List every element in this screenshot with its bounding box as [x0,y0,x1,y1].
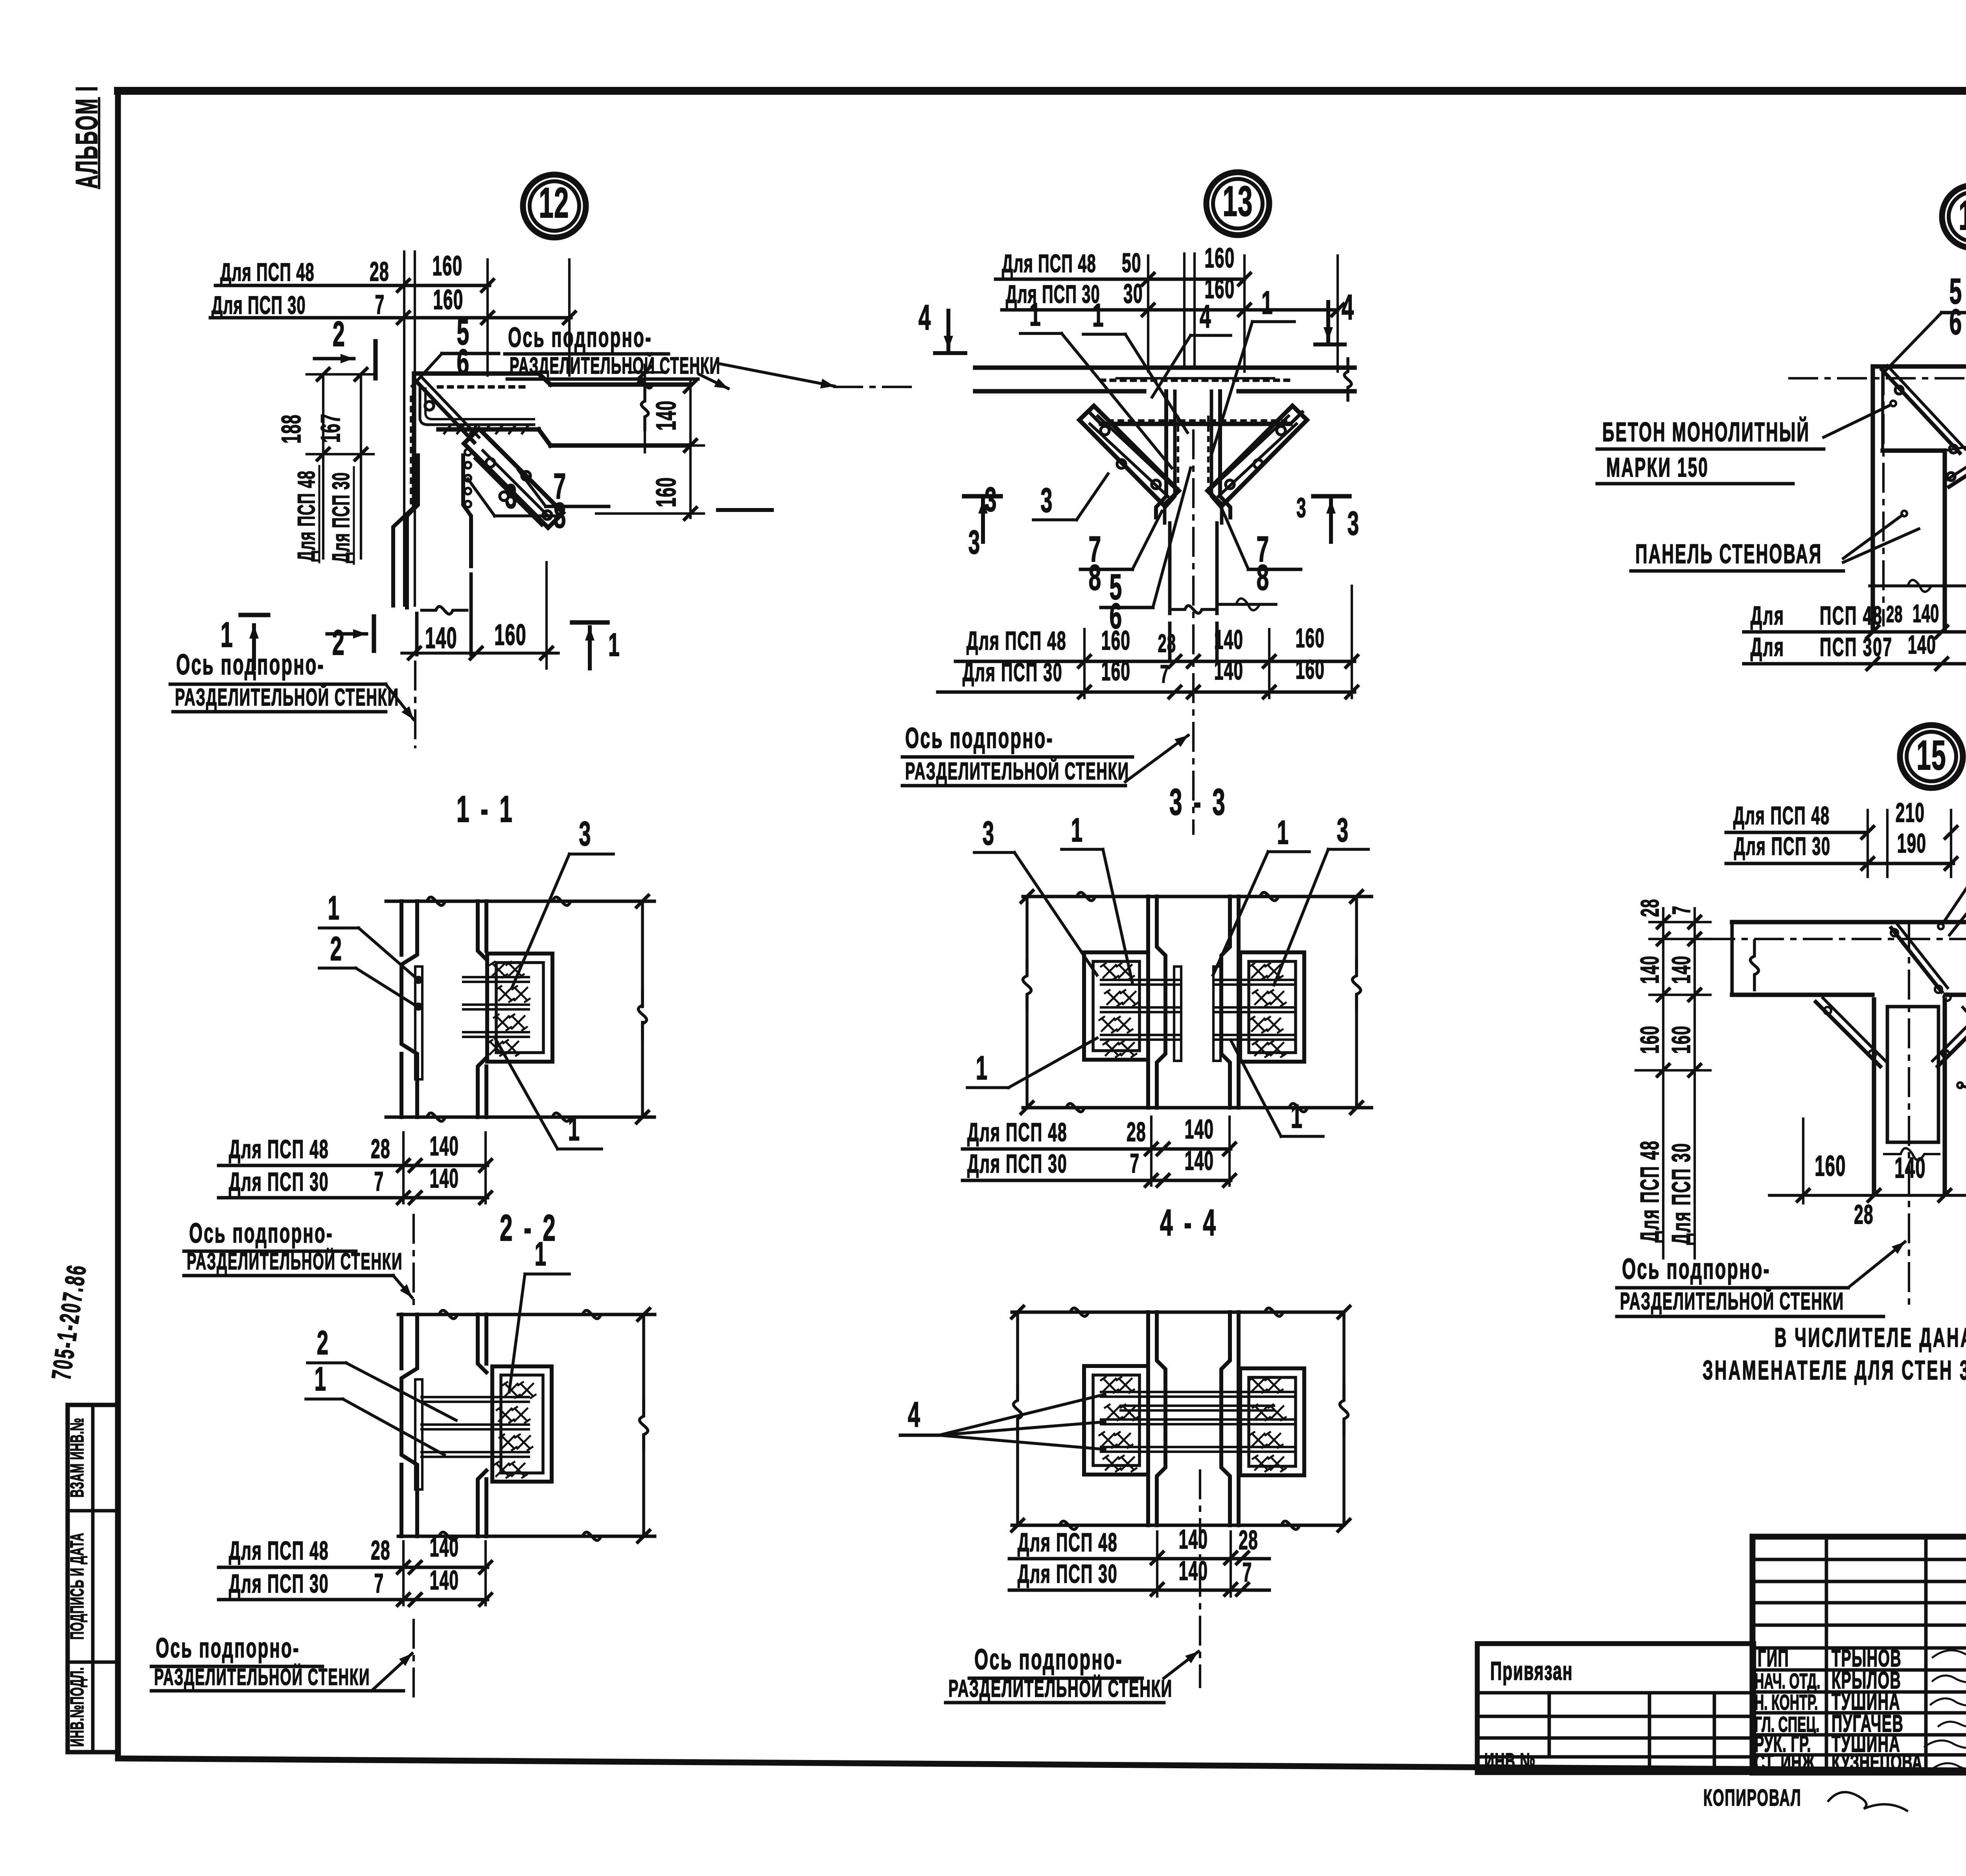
section 2-2 axis label [151,1620,414,1703]
svg-text:28: 28 [371,1535,390,1566]
section 4-4 bottom rail [1012,1521,1341,1529]
node 15 wall panel [1874,1000,1945,1194]
section 3-3 left wall strip [1148,897,1165,1108]
section 4-4 right panel box [1240,1368,1304,1475]
svg-text:Для ПСП 48: Для ПСП 48 [293,470,320,562]
node 12 wall break mark [422,606,467,614]
title block signatures [1925,1650,1966,1775]
svg-text:7: 7 [1160,661,1169,689]
node 14 diagonal strip bottom [1946,439,1966,487]
svg-text:1: 1 [568,1110,580,1147]
svg-text:РАЗДЕЛИТЕЛЬНОЙ СТЕНКИ: РАЗДЕЛИТЕЛЬНОЙ СТЕНКИ [187,1248,403,1275]
svg-text:3: 3 [983,814,995,852]
node 13 right diagonal brace [1208,406,1307,505]
svg-text:РАЗДЕЛИТЕЛЬНОЙ СТЕНКИ: РАЗДЕЛИТЕЛЬНОЙ СТЕНКИ [1620,1287,1844,1315]
svg-text:Ось подпорно-: Ось подпорно- [156,1633,300,1663]
left stamp column boxes [68,1405,118,1752]
node 14 bottom wavy line [1870,580,1966,592]
node 13 section marker 4 right [1315,287,1354,344]
svg-text:140: 140 [1666,955,1696,984]
node 13 wall goblet [1156,391,1230,661]
svg-text:160: 160 [1205,243,1235,273]
svg-text:140: 140 [1913,600,1939,628]
svg-text:Н. КОНТР.: Н. КОНТР. [1754,1690,1818,1714]
section 3-3 rebar anchors left [1099,963,1138,1057]
section 1-1 top rail [386,897,654,905]
title block left extension table [1477,1644,1754,1773]
node 15 label 7 over 8 [1963,1007,1966,1116]
section 2-2 leader 2 left [307,1324,456,1420]
svg-text:Для ПСП 30: Для ПСП 30 [212,292,306,320]
svg-text:РАЗДЕЛИТЕЛЬНОЙ СТЕНКИ: РАЗДЕЛИТЕЛЬНОЙ СТЕНКИ [510,352,720,379]
svg-text:3: 3 [968,523,981,561]
svg-text:Для ПСП 48: Для ПСП 48 [229,1134,329,1164]
node 13 slab break right [1344,359,1351,400]
section 3-3 right panel box [1240,952,1304,1062]
svg-text:30: 30 [1123,279,1143,309]
title block staff labels [1754,1645,1922,1776]
section 2-2 dim rows [219,1532,491,1605]
svg-text:140: 140 [1179,1556,1208,1586]
svg-text:ВЗАМ ИНВ.№: ВЗАМ ИНВ.№ [67,1418,88,1498]
svg-text:ИНВ.№: ИНВ.№ [1484,1748,1536,1773]
section 4-4 right wall strip [1221,1312,1239,1525]
node 12 top dim table row 2 [210,284,571,320]
section 4-4 top rail [1012,1308,1341,1316]
svg-text:140: 140 [1908,630,1936,659]
svg-text:Для ПСП 48: Для ПСП 48 [966,626,1067,655]
svg-text:160: 160 [1635,1025,1664,1054]
title block staff table grid [1752,1537,1966,1773]
svg-text:3 - 3: 3 - 3 [1169,781,1228,823]
node 15 slab break left [1750,941,1758,990]
section 3-3 bottom rail [1023,1103,1371,1112]
svg-text:1: 1 [1291,1097,1303,1135]
title block main box [1752,1537,1966,1773]
svg-text:140: 140 [430,1131,459,1162]
section 3-3 rebar bars [1101,980,1294,1040]
section 1-1 rebar bars [463,977,529,1037]
svg-text:Для ПСП 30: Для ПСП 30 [229,1167,329,1197]
svg-text:160: 160 [1296,623,1325,654]
svg-text:2 - 2: 2 - 2 [500,1207,558,1249]
section 3-3 leader 1 bottom right [1231,1040,1323,1136]
svg-text:3: 3 [1296,492,1307,523]
svg-text:160: 160 [651,477,681,507]
section 4-4 left wall strip [1148,1312,1165,1525]
svg-text:МАРКИ 150: МАРКИ 150 [1606,453,1709,483]
svg-text:Ось подпорно-: Ось подпорно- [189,1218,333,1248]
svg-text:1: 1 [315,1360,327,1397]
node 15 slab panel [1732,922,1966,995]
node 13 label 3 left leader [1033,474,1108,520]
svg-text:7: 7 [1130,1149,1140,1179]
svg-text:160: 160 [433,284,464,315]
svg-text:140: 140 [1214,625,1243,655]
section 1-1 axis label [184,1215,414,1305]
svg-text:Для ПСП 30: Для ПСП 30 [229,1569,329,1598]
svg-text:2: 2 [332,622,345,662]
section 4-4 rebar anchors [1099,1377,1286,1471]
node 13 section marker 4 left [919,297,965,353]
svg-text:4: 4 [919,297,931,337]
section 1-1 panel box [487,954,552,1062]
svg-text:210: 210 [1896,798,1925,828]
svg-text:28: 28 [371,1134,390,1164]
node 12 short dash segment [718,508,772,512]
svg-text:140: 140 [1214,655,1243,686]
node 15 label 5 over 6 [1949,824,1966,935]
svg-text:РАЗДЕЛИТЕЛЬНОЙ СТЕНКИ: РАЗДЕЛИТЕЛЬНОЙ СТЕНКИ [154,1663,370,1690]
node 15 beton label [1938,798,1966,929]
svg-text:7: 7 [374,1167,384,1197]
section 4-4 left panel box [1084,1366,1148,1475]
svg-text:1: 1 [1261,284,1273,321]
svg-text:2: 2 [317,1324,329,1361]
node 13 label 7 over 8 left [1081,511,1162,598]
node 13 slab panel [975,368,1355,391]
svg-text:28: 28 [1886,602,1903,627]
node 14 axis dashdot horizontal [1789,377,1966,379]
section 3-3 top rail [1023,892,1371,900]
svg-text:СТ. ИНЖ: СТ. ИНЖ [1754,1750,1815,1775]
svg-text:140: 140 [425,622,457,655]
section 1-1 rebar anchors [488,962,530,1056]
section 3-3 leader 1 bottom left [967,1038,1097,1088]
node 13 joint block [1089,412,1302,424]
node 12 bottom dim row [402,562,558,668]
section 4-4 leader 4 [900,1394,1105,1449]
svg-text:167: 167 [316,414,346,443]
section 1-1 joint plate [415,967,422,1079]
node 13 web hatch dots [1178,417,1208,493]
svg-text:1: 1 [328,889,340,926]
svg-text:Для ПСП 30: Для ПСП 30 [328,472,355,563]
node 14 bottom dim rows [1744,562,1966,670]
svg-text:4: 4 [908,1394,920,1434]
node 14 corner panel [1873,366,1966,629]
svg-text:Для ПСП 30: Для ПСП 30 [1018,1559,1118,1589]
node 12 label 7 over 8 [518,466,609,536]
node 14 label 5 over 6 [1883,271,1966,373]
svg-text:4: 4 [1342,287,1354,327]
svg-text:4 - 4: 4 - 4 [1160,1202,1218,1244]
section 2-2 joint plate [415,1379,422,1489]
svg-text:Для ПСП 30: Для ПСП 30 [963,657,1063,687]
svg-text:3: 3 [505,477,517,515]
section 1-1 right dim line [637,895,648,1123]
svg-text:1 - 1: 1 - 1 [457,788,515,830]
svg-text:28: 28 [1158,630,1176,658]
svg-text:2: 2 [330,930,342,967]
svg-text:ЗНАМЕНАТЕЛЕ ДЛЯ СТЕН 3,000 м: ЗНАМЕНАТЕЛЕ ДЛЯ СТЕН 3,000 м. [1703,1355,1966,1386]
node 12 corner rebar angle [420,388,534,425]
node 15 axis vertical [1908,922,1910,1311]
svg-text:Для ПСП 48: Для ПСП 48 [1018,1528,1118,1557]
node 12 right dim chain [596,365,704,519]
section 1-1 leader 1 left [319,889,416,978]
node 13 callout circle [1206,172,1269,235]
node 12 corner anchor plate diagonal [416,378,479,442]
section 3-3 top labels [974,811,1368,985]
section 4-4 axis line below [1199,1471,1201,1687]
svg-text:160: 160 [433,250,463,281]
svg-text:1: 1 [535,1235,547,1272]
node 12 top dim table row 1 [215,250,490,287]
svg-text:50: 50 [1122,248,1141,278]
svg-text:3: 3 [1040,481,1053,519]
section 3-3 dim rows [963,1114,1235,1186]
section 2-2 panel box [492,1366,552,1482]
node 12 top dim guides [398,260,575,376]
section 2-2 bottom rail [398,1532,655,1540]
svg-text:1: 1 [608,626,620,663]
svg-text:Ось подпорно-: Ось подпорно- [176,648,325,681]
svg-text:12: 12 [539,179,569,227]
svg-text:2: 2 [333,314,345,353]
section 2-2 right dim line [638,1309,650,1542]
node 12 section marker 2 bottom [327,617,374,662]
node 12 section marker 1 bottom right [572,622,620,668]
node 15 wavy below wall [1884,1148,1939,1160]
svg-text:1: 1 [1029,296,1041,333]
svg-text:14: 14 [1959,192,1966,239]
svg-text:1: 1 [1277,814,1289,851]
section 1-1 leader 2 left [319,930,416,1006]
svg-text:3: 3 [579,815,591,853]
note text [1703,1322,1966,1385]
svg-text:Ось подпорно-: Ось подпорно- [905,722,1054,754]
svg-text:В ЧИСЛИТЕЛЕ ДАНА ПОЗ. ДЛЯ С: В ЧИСЛИТЕЛЕ ДАНА ПОЗ. ДЛЯ СТЕН ВЫСОТОЙ 4… [1775,1322,1966,1353]
node 12 label 5 over 6 [412,312,499,386]
section 3-3 right joint plate [1213,967,1220,1061]
svg-text:28: 28 [370,257,389,287]
svg-text:ПСП 307: ПСП 307 [1820,632,1893,662]
svg-text:1: 1 [1092,297,1104,333]
svg-text:Ось подпорно-: Ось подпорно- [1622,1253,1771,1285]
node 13 left diagonal brace [1079,406,1179,505]
svg-text:Для: Для [1751,632,1785,662]
node 14 panel label [1631,511,1919,571]
svg-text:140: 140 [1635,955,1664,984]
svg-text:РАЗДЕЛИТЕЛЬНОЙ СТЕНКИ: РАЗДЕЛИТЕЛЬНОЙ СТЕНКИ [175,683,399,711]
section 3-3 right dim line [1351,891,1362,1114]
svg-text:7: 7 [1668,906,1696,915]
svg-text:7: 7 [375,290,385,320]
section 2-2 top rail [398,1310,655,1318]
section 1-1 leader 1 bottom [495,1037,602,1149]
svg-text:Для ПСП 48: Для ПСП 48 [1733,802,1830,830]
svg-text:28: 28 [1127,1117,1146,1147]
node 13 top dim rows [996,243,1344,372]
svg-text:190: 190 [1897,828,1926,859]
svg-text:28: 28 [1854,1200,1874,1230]
node 12 diagonal brace panel [464,429,563,528]
svg-text:Для ПСП 30: Для ПСП 30 [1734,833,1831,861]
section 1-1 dim rows [219,1131,491,1204]
node 14 axis dashdot vertical [1882,366,1885,625]
svg-text:3: 3 [1347,504,1360,542]
section 3-3 right wall strip [1221,897,1239,1108]
node 13 axis label [902,722,1188,786]
section 2-2 rebar anchors [494,1382,536,1478]
svg-text:140: 140 [651,400,681,431]
svg-text:Для ПСП 48: Для ПСП 48 [220,259,315,287]
svg-text:140: 140 [1185,1114,1214,1145]
kopiroval label [1703,1785,1907,1811]
svg-text:160: 160 [1296,655,1325,685]
section 4-4 dim rows [1009,1524,1269,1596]
node 12 wall panel [393,374,471,655]
section 4-4 left dim line [1012,1306,1023,1531]
section 4-4 rebar bars [1101,1392,1294,1452]
section 3-3 rebar anchors right [1250,963,1286,1057]
node 15 right brace [1933,998,1966,1066]
node 13 top position labels [1020,284,1294,468]
section 3-3 left joint plate [1174,967,1181,1061]
node 12 joint hatch ticks [444,426,528,433]
svg-text:160: 160 [494,619,526,652]
svg-text:ПАНЕЛЬ СТЕНОВАЯ: ПАНЕЛЬ СТЕНОВАЯ [1635,539,1822,569]
node 13 wall break mark [1171,606,1216,613]
svg-text:8: 8 [1089,558,1102,598]
section 1-1 wall strips [401,901,486,1117]
svg-text:Ось подпорно-: Ось подпорно- [508,322,652,353]
node 12 label 3 [468,477,562,516]
svg-text:140: 140 [430,1565,459,1596]
svg-text:7: 7 [374,1569,384,1599]
svg-text:ИНВ.№ПОДЛ.: ИНВ.№ПОДЛ. [67,1667,88,1747]
node 12 axis label top [505,322,916,388]
section 1-1 leader 3 top [512,815,613,988]
svg-text:РАЗДЕЛИТЕЛЬНОЙ СТЕНКИ: РАЗДЕЛИТЕЛЬНОЙ СТЕНКИ [905,757,1129,785]
svg-text:1: 1 [1071,811,1083,849]
svg-text:Для: Для [1751,601,1785,630]
node 13 label 7 over 8 right [1222,509,1301,598]
section 2-2 leader 1 top [509,1235,569,1392]
node 12 wall hatch circles [465,449,471,507]
svg-text:Для ПСП 48: Для ПСП 48 [1002,250,1096,278]
svg-text:ГИП: ГИП [1758,1645,1789,1672]
node 12 left dim chain [276,368,374,564]
node 12 axis label bottom [170,648,415,747]
node 13 wavy under wall [1217,598,1276,610]
node 15 bottom dim row [1769,1119,1966,1230]
node 15 left dim chain [1635,899,1710,1258]
svg-text:140: 140 [1894,1152,1926,1184]
section 4-4 right dim line [1338,1306,1350,1531]
svg-text:Для ПСП 30: Для ПСП 30 [1006,281,1100,309]
section 3-3 left panel box [1084,952,1148,1060]
svg-text:8: 8 [554,495,567,536]
node 12 slab panel [417,374,689,446]
node 15 monolith diagonal [1891,924,1951,1001]
node 15 left brace [1816,998,1885,1066]
node 13 bottom dim rows [938,586,1358,698]
svg-text:Для ПСП 48: Для ПСП 48 [967,1117,1068,1147]
svg-text:Для ПСП 30: Для ПСП 30 [967,1149,1068,1178]
svg-text:28: 28 [1636,899,1664,917]
svg-text:140: 140 [430,1532,459,1563]
svg-text:160: 160 [1101,626,1130,656]
svg-text:БЕТОН МОНОЛИТНЫЙ: БЕТОН МОНОЛИТНЫЙ [1602,416,1810,447]
section 2-2 wall strips [401,1314,486,1536]
node 13 label 5 over 6 [1101,468,1191,636]
node 15 top dim rows [1726,798,1957,877]
section 2-2 leader 1 left [306,1360,444,1455]
svg-text:140: 140 [1179,1524,1208,1555]
svg-text:Для ПСП 48: Для ПСП 48 [229,1536,329,1565]
svg-text:140: 140 [430,1164,459,1194]
svg-text:15: 15 [1916,732,1946,779]
svg-text:160: 160 [1666,1025,1696,1054]
node 12 axis verticals [404,252,415,606]
node 15 slab axis dashdot [1706,938,1966,940]
node 12 section marker 1 bottom left [221,615,268,668]
node 13 axis verticals [1184,254,1195,368]
svg-text:6: 6 [457,342,470,382]
node 14 diagonal strip top [1882,366,1965,453]
svg-text:Ось подпорно-: Ось подпорно- [974,1643,1123,1675]
svg-text:Для ПСП 48: Для ПСП 48 [1635,1140,1664,1243]
node 15 callout circle [1900,725,1963,788]
node 12 callout circle [523,175,586,237]
svg-text:РАЗДЕЛИТЕЛЬНОЙ СТЕНКИ: РАЗДЕЛИТЕЛЬНОЙ СТЕНКИ [948,1675,1173,1702]
svg-text:4: 4 [1200,298,1211,335]
svg-text:13: 13 [1222,178,1253,225]
node 13 axis line [1192,431,1195,834]
node 14 beton label [1597,401,1896,484]
node 14 callout circle [1942,185,1966,248]
svg-text:1: 1 [976,1049,988,1086]
section 3-3 left dim line [1021,891,1033,1114]
svg-text:ПСП 48: ПСП 48 [1820,601,1883,630]
node 12 slab break mark [624,381,666,388]
svg-text:Для ПСП 30: Для ПСП 30 [1666,1142,1696,1245]
svg-text:188: 188 [276,414,307,444]
node 12 section marker 2 top [315,314,376,378]
svg-text:160: 160 [1101,656,1130,687]
svg-text:НАЧ. ОТД.: НАЧ. ОТД. [1754,1669,1821,1693]
svg-text:6: 6 [1949,302,1962,342]
section 4-4 axis label [946,1643,1198,1703]
node 13 section marker 3 left [964,481,1001,561]
node 15 panel label [1957,963,1966,1123]
node 13 section marker 3 right [1296,492,1359,542]
svg-text:8: 8 [1257,558,1270,598]
svg-text:3: 3 [1337,811,1349,849]
svg-text:ПОДПИСЬ И ДАТА: ПОДПИСЬ И ДАТА [67,1533,88,1640]
section 1-1 bottom rail [386,1113,654,1121]
node 15 axis label [1617,1242,1905,1316]
section 2-2 rebar bars [422,1397,529,1457]
svg-text:Привязан: Привязан [1490,1656,1573,1686]
svg-text:КУЗНЕЦОВА: КУЗНЕЦОВА [1832,1750,1922,1775]
svg-text:КОПИРОВАЛ: КОПИРОВАЛ [1703,1785,1802,1811]
svg-text:140: 140 [1185,1146,1214,1176]
svg-text:160: 160 [1815,1150,1846,1182]
